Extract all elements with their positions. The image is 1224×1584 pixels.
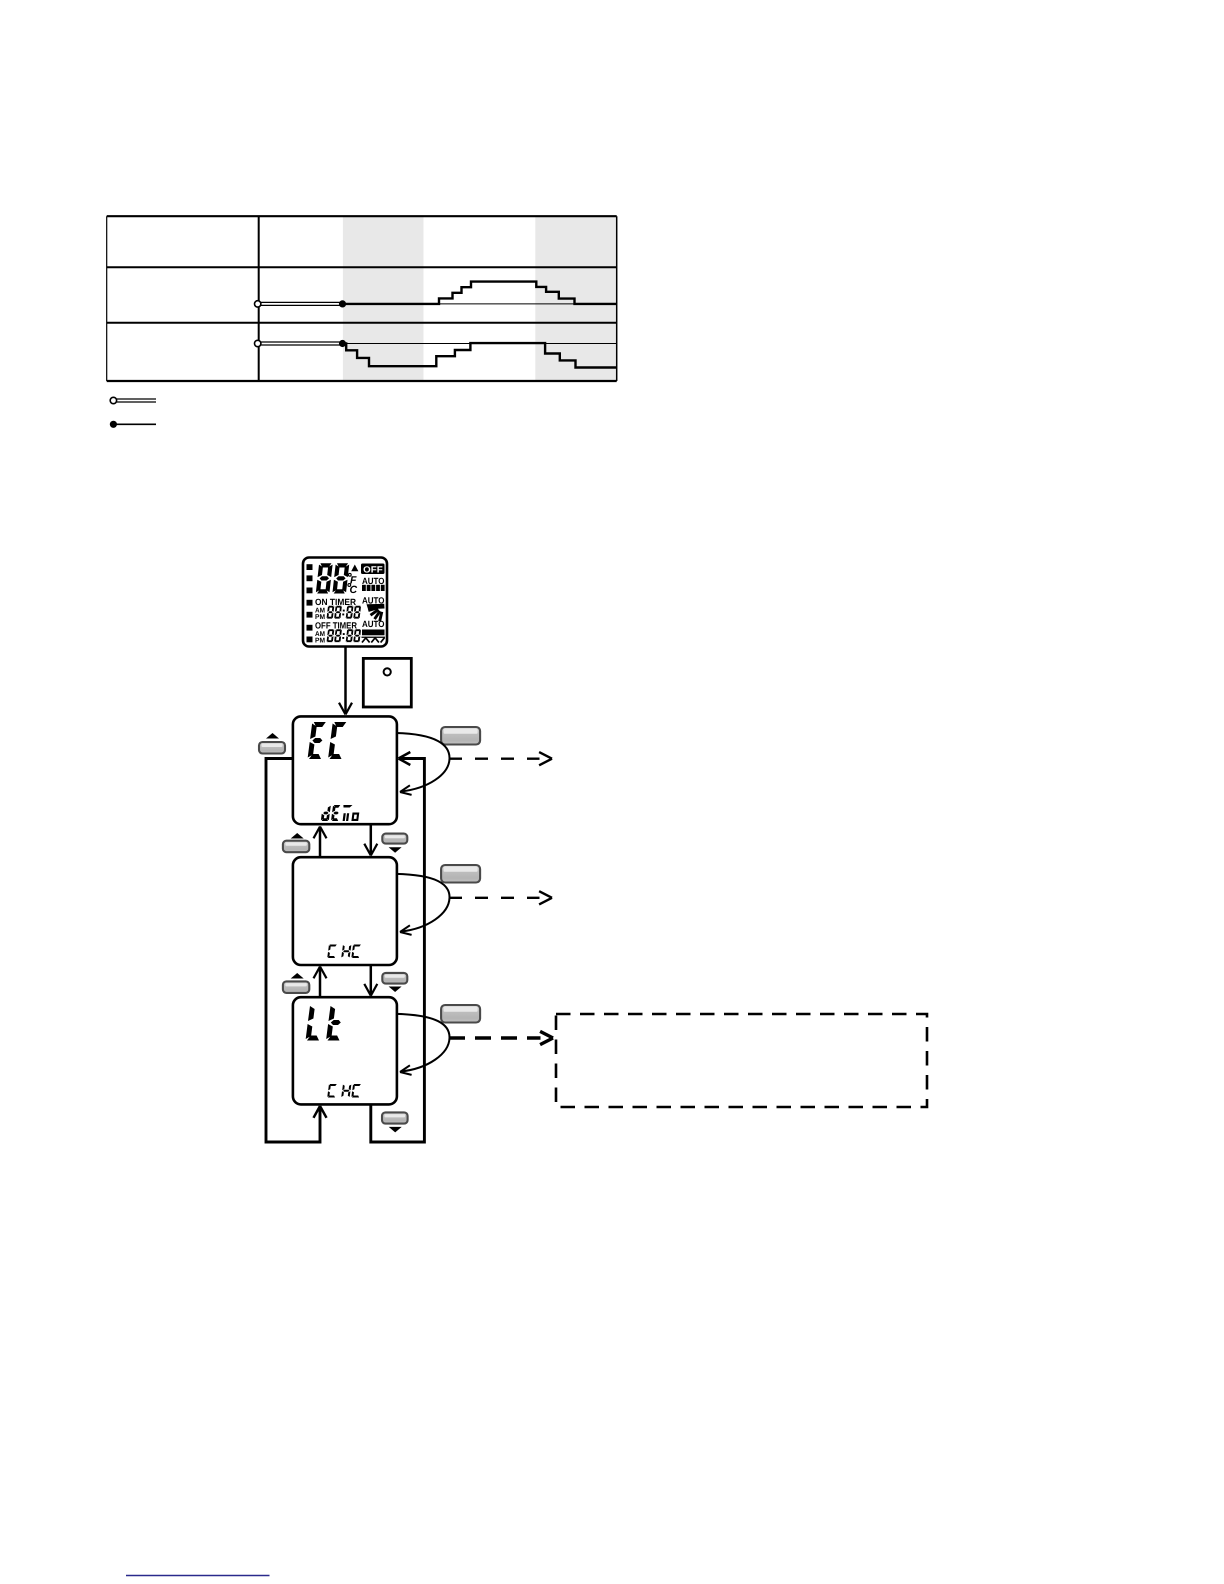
svg-text:ON TIMER: ON TIMER [315, 597, 356, 607]
svg-text:AUTO: AUTO [362, 619, 385, 629]
svg-text:OFF TIMER: OFF TIMER [315, 620, 357, 630]
svg-text:AUTO: AUTO [362, 576, 385, 586]
svg-text:OFF: OFF [363, 564, 383, 574]
svg-text:PM: PM [315, 638, 325, 645]
